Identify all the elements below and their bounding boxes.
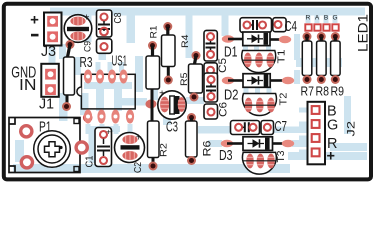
svg-text:D2: D2 xyxy=(224,87,239,103)
svg-text:+: + xyxy=(106,128,111,137)
svg-text:C3: C3 xyxy=(166,119,178,135)
svg-text:C2: C2 xyxy=(132,162,144,173)
svg-text:C4: C4 xyxy=(285,19,298,35)
svg-text:R4: R4 xyxy=(180,35,191,49)
svg-text:+: + xyxy=(136,133,142,144)
svg-text:G: G xyxy=(327,118,338,134)
svg-text:C9: C9 xyxy=(83,41,94,52)
svg-text:LED1: LED1 xyxy=(355,14,371,52)
svg-text:C7: C7 xyxy=(275,119,288,135)
svg-text:IN: IN xyxy=(19,77,37,94)
svg-text:J3: J3 xyxy=(41,44,56,60)
svg-text:B: B xyxy=(324,15,328,22)
svg-text:R: R xyxy=(306,15,311,22)
svg-text:C8: C8 xyxy=(113,12,124,23)
svg-text:T3: T3 xyxy=(275,150,287,162)
svg-text:R7: R7 xyxy=(301,84,315,99)
svg-text:R1: R1 xyxy=(149,26,160,39)
svg-text:T1: T1 xyxy=(276,49,288,63)
svg-text:+: + xyxy=(159,89,165,100)
svg-text:R9: R9 xyxy=(331,84,345,99)
svg-text:T2: T2 xyxy=(278,92,290,105)
svg-text:R6: R6 xyxy=(202,141,214,157)
svg-text:R8: R8 xyxy=(316,84,330,99)
svg-text:J1: J1 xyxy=(39,97,54,113)
svg-text:US1: US1 xyxy=(112,53,128,69)
svg-text:D3: D3 xyxy=(219,148,233,164)
svg-text:D1: D1 xyxy=(224,44,238,60)
svg-text:R3: R3 xyxy=(80,55,93,71)
svg-text:A: A xyxy=(315,15,320,22)
svg-text:C1: C1 xyxy=(84,155,96,167)
svg-text:G: G xyxy=(332,15,337,22)
svg-text:R2: R2 xyxy=(159,143,170,157)
svg-text:R5: R5 xyxy=(179,73,190,87)
svg-text:+: + xyxy=(84,13,90,24)
svg-text:+: + xyxy=(30,12,39,29)
svg-text:P1: P1 xyxy=(39,119,52,135)
svg-text:+: + xyxy=(327,149,335,165)
svg-text:C6: C6 xyxy=(217,102,229,117)
svg-text:J2: J2 xyxy=(346,121,358,137)
